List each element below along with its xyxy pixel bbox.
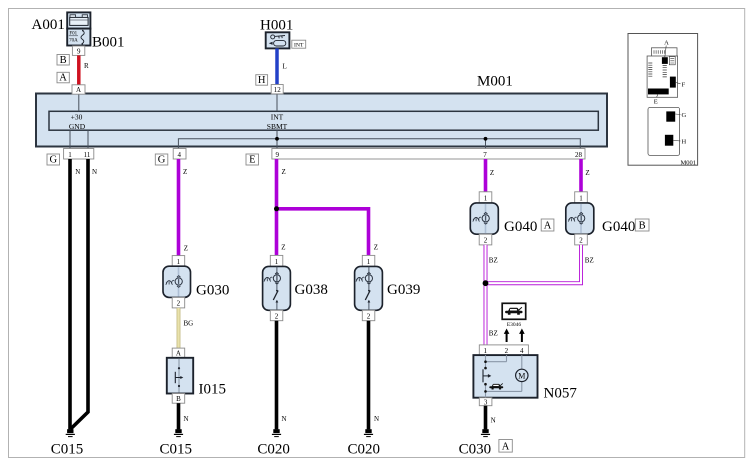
svg-text:4: 4: [177, 151, 181, 159]
wire N black G039: [367, 321, 371, 430]
svg-text:G: G: [50, 155, 58, 166]
G039 pin 1: [362, 255, 375, 266]
pin strip 9 / 7 / 28: [272, 149, 585, 160]
svg-text:C015: C015: [51, 442, 84, 458]
pin box 9: [72, 46, 84, 55]
G040B pin 2: [575, 234, 588, 245]
pin box 4: [173, 149, 186, 160]
pump motor N057: [473, 355, 537, 398]
wire Z magenta pin28: [579, 159, 583, 192]
boxed node G left: [47, 154, 60, 166]
svg-text:Z: Z: [281, 244, 285, 252]
boxed tag B: [635, 219, 649, 232]
svg-text:G039: G039: [387, 282, 420, 298]
svg-text:N: N: [282, 415, 287, 423]
svg-text:M: M: [518, 371, 525, 380]
wire GND to pin 11: [87, 130, 89, 148]
svg-text:A: A: [544, 221, 552, 232]
pin box A: [72, 85, 85, 94]
svg-text:1: 1: [177, 258, 181, 266]
ground C015 left: [66, 429, 75, 436]
svg-text:C015: C015: [160, 442, 193, 458]
svg-text:2: 2: [484, 237, 488, 245]
svg-text:9: 9: [77, 47, 81, 55]
svg-text:I015: I015: [199, 382, 227, 398]
svg-text:G: G: [682, 112, 687, 119]
svg-text:F: F: [682, 81, 686, 88]
svg-text:G038: G038: [295, 282, 328, 298]
G030 pin 1: [172, 256, 185, 267]
intermediate connector E3046: [502, 303, 526, 328]
boxed tag A C030: [499, 440, 512, 453]
svg-text:2: 2: [367, 313, 371, 321]
ground C015 mid: [174, 429, 183, 436]
svg-text:1: 1: [275, 258, 279, 266]
inset connector view box: [628, 34, 698, 166]
G040A pin 2: [479, 234, 492, 245]
svg-text:BZ: BZ: [489, 257, 498, 265]
N057 pin strip 1 2 4: [479, 345, 528, 355]
svg-text:Z: Z: [374, 244, 378, 252]
boxed tag A: [541, 219, 554, 232]
svg-text:E3046: E3046: [507, 322, 522, 328]
svg-text:+30: +30: [71, 112, 83, 121]
svg-text:M001: M001: [477, 73, 513, 89]
svg-text:12: 12: [274, 86, 282, 94]
boxed node B: [57, 55, 69, 66]
inset connector body upper: [647, 48, 678, 98]
svg-text:E: E: [249, 155, 255, 166]
sensor G030: [163, 266, 191, 297]
battery A001: [67, 12, 90, 28]
wire GND to pin 1: [69, 130, 71, 148]
arrow into pin 2: [504, 329, 510, 343]
junction node on bus at pin 9: [275, 137, 279, 141]
svg-text:A: A: [664, 40, 669, 47]
svg-text:H: H: [682, 138, 687, 145]
svg-text:A: A: [176, 350, 181, 358]
svg-text:1: 1: [68, 151, 72, 159]
boxed node E: [246, 154, 259, 166]
boxed node G mid: [155, 154, 168, 166]
svg-text:B: B: [176, 395, 181, 403]
wire Z magenta pin9: [275, 159, 279, 255]
wire from pin A to +30: [78, 95, 80, 112]
svg-text:A: A: [502, 442, 510, 453]
junction node BZ: [483, 280, 489, 286]
inset label F: [676, 81, 686, 88]
svg-text:L: L: [283, 63, 287, 71]
svg-text:1: 1: [367, 258, 371, 266]
svg-text:G: G: [158, 155, 166, 166]
G040B pin 1: [575, 192, 588, 203]
inset label H: [673, 138, 686, 145]
G039 pin 2: [362, 310, 375, 320]
svg-text:C030: C030: [459, 442, 492, 458]
svg-text:2: 2: [275, 313, 279, 321]
sensor G040 A: [470, 203, 498, 234]
svg-text:A001: A001: [32, 17, 65, 33]
sensor G040 B: [566, 203, 594, 234]
svg-text:2: 2: [505, 347, 509, 355]
svg-text:4: 4: [520, 347, 524, 355]
junction node: [274, 206, 279, 211]
svg-text:C020: C020: [347, 442, 380, 458]
svg-text:SBMT: SBMT: [267, 122, 288, 131]
fuse B001: [67, 29, 90, 46]
svg-text:G040: G040: [602, 219, 635, 235]
svg-text:1: 1: [483, 347, 487, 355]
sensor switch G039: [355, 266, 383, 310]
wire BG: [177, 308, 181, 348]
svg-text:BZ: BZ: [489, 330, 498, 338]
G030 pin 2: [172, 297, 185, 308]
svg-text:2: 2: [177, 300, 181, 308]
svg-text:N: N: [184, 415, 189, 423]
svg-text:A: A: [59, 73, 67, 84]
wire N black I015: [177, 403, 181, 429]
svg-text:1: 1: [484, 194, 488, 202]
svg-text:BZ: BZ: [585, 257, 594, 265]
svg-text:G030: G030: [196, 283, 229, 299]
wire Z magenta pin4: [177, 159, 181, 256]
arrow into pin 4: [519, 329, 525, 343]
svg-text:70A: 70A: [69, 38, 78, 43]
wire SBMT to bus: [276, 130, 278, 148]
svg-text:N057: N057: [544, 386, 578, 402]
svg-text:A: A: [76, 86, 81, 94]
svg-text:N: N: [75, 168, 80, 176]
svg-text:G040: G040: [504, 219, 537, 235]
sensor switch G038: [263, 266, 291, 310]
SBMT bus wire: [178, 139, 580, 149]
svg-text:B: B: [60, 55, 67, 66]
pin box 12: [271, 85, 283, 94]
junction node on bus at pin 7: [484, 137, 488, 141]
svg-text:B001: B001: [92, 34, 125, 50]
svg-text:Z: Z: [183, 168, 187, 176]
wire bus to pin 7: [485, 139, 487, 149]
inset connector body lower: [648, 107, 680, 155]
svg-text:3: 3: [484, 398, 488, 406]
ground C030: [481, 429, 490, 436]
boxed node H: [256, 75, 268, 86]
wire Z magenta pin7: [484, 159, 488, 192]
boxed node A: [57, 72, 69, 83]
G038 pin 1: [270, 255, 283, 266]
inset label G: [675, 112, 686, 119]
svg-text:GND: GND: [69, 122, 86, 131]
svg-text:BG: BG: [184, 320, 194, 328]
ECU M001 outer box: [36, 94, 607, 147]
ignition switch H001: [266, 32, 290, 48]
svg-text:Z: Z: [282, 168, 286, 176]
inset label A: [664, 40, 669, 58]
svg-text:E: E: [654, 99, 658, 106]
pin strip 1 / 11: [64, 149, 94, 160]
M001 inner net box: [49, 111, 598, 130]
svg-text:INT: INT: [271, 112, 284, 121]
wire N black pin1: [68, 159, 72, 429]
G040A pin 1: [479, 192, 492, 203]
svg-text:Z: Z: [184, 245, 188, 253]
svg-text:H001: H001: [260, 18, 293, 34]
svg-text:28: 28: [575, 151, 583, 159]
boxed INT tag: [292, 40, 306, 48]
wire BZ right: [486, 245, 582, 283]
switch I015: [167, 358, 193, 394]
wire N black G038: [275, 321, 279, 430]
svg-text:Z: Z: [585, 169, 589, 177]
ground C020 right: [364, 429, 373, 436]
inset label E: [654, 94, 658, 105]
wire L blue: [275, 48, 279, 84]
wire R red: [77, 55, 81, 85]
svg-text:INT: INT: [294, 42, 304, 48]
ground C020 left: [272, 429, 281, 436]
svg-text:C020: C020: [257, 442, 290, 458]
G038 pin 2: [270, 310, 283, 320]
svg-text:9: 9: [276, 151, 280, 159]
svg-text:N: N: [92, 168, 97, 176]
wire N black pin11: [71, 159, 88, 429]
N057 pin 3: [479, 398, 492, 407]
svg-text:Z: Z: [490, 169, 494, 177]
I015 pin A: [172, 348, 185, 358]
svg-text:2: 2: [579, 237, 583, 245]
svg-text:M001: M001: [680, 159, 696, 166]
svg-text:11: 11: [84, 151, 91, 159]
svg-text:7: 7: [483, 151, 487, 159]
wire from pin 12 to INT: [276, 95, 278, 112]
wire BZ left: [484, 245, 488, 345]
svg-text:R: R: [84, 62, 89, 70]
I015 pin B: [172, 394, 185, 404]
svg-text:N: N: [374, 415, 379, 423]
svg-text:H: H: [258, 75, 266, 86]
svg-text:B: B: [639, 221, 646, 232]
svg-text:1: 1: [579, 194, 583, 202]
svg-text:N: N: [491, 417, 496, 425]
wire N black N057: [484, 406, 488, 430]
wire Z branch to G039: [277, 209, 369, 256]
